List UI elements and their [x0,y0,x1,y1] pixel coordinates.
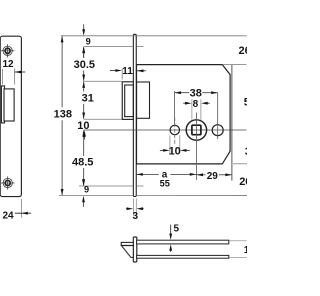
extension line latch top [84,80,122,82]
left circle centre line vertical [174,118,176,145]
svg-text:15.5: 15.5 [244,245,247,256]
dimension 3 extension lines [133,199,136,216]
svg-text:9: 9 [86,36,91,46]
svg-text:3: 3 [133,211,139,222]
dimension 10 circle diameter [170,135,180,153]
top view case top rail [137,240,229,244]
dimension 24 extension line [20,199,22,218]
top screw hole [1,44,15,58]
svg-text:24: 24 [2,210,14,221]
top extension line (plate top) [61,35,247,37]
faceplate side view strip [133,34,136,196]
chain dimension 9 top [83,24,85,30]
svg-text:5: 5 [174,224,180,235]
right circle centre line vertical [217,93,219,140]
svg-text:29: 29 [207,171,219,182]
cylinder hole left circle [170,125,179,134]
svg-text:9: 9 [84,185,89,195]
dimension 12 arrow [15,71,26,73]
dimension 138 line [61,36,63,195]
svg-text:26.5: 26.5 [239,45,248,57]
extension line case bottom right [233,163,247,165]
top view latch bolt bevel [121,246,133,258]
dimension 3 arrows [126,208,128,210]
svg-text:11: 11 [122,66,133,77]
svg-text:8: 8 [193,99,199,110]
svg-text:30.5: 30.5 [74,59,95,71]
chain dimension 9 bottom [83,179,85,181]
svg-text:10: 10 [169,145,181,157]
dimension 12 extension lines [2,69,14,85]
top view right extension lines [230,241,247,258]
follower centre line horizontal [84,129,247,131]
extension line latch bottom [84,118,122,120]
top view latch bolt bar [121,242,133,245]
screw hole right circle [212,125,223,136]
svg-text:12: 12 [2,59,14,70]
bottom screw hole [1,176,15,189]
dimension a backset [136,173,196,175]
svg-text:52.5: 52.5 [244,97,247,109]
extension line case top right [222,64,246,66]
svg-text:48.5: 48.5 [72,157,93,169]
latch bolt front view outer lip [1,86,4,123]
svg-text:55: 55 [160,179,170,189]
follower centre line vertical [195,113,197,181]
top view faceplate bar [133,237,137,262]
right edge extension vertical [231,65,233,181]
lock case side view body [137,65,231,164]
dimension label 55 [159,179,172,188]
chain dimension 31 [83,82,85,119]
dimension 38 [174,91,176,125]
latch bolt front view body [4,89,14,121]
svg-text:35: 35 [245,146,247,158]
chain dimension 30.5 [83,47,85,81]
latch bolt side view [122,82,133,120]
top view case bottom rail [137,255,229,258]
extension line screw level [84,45,144,47]
svg-text:26.5: 26.5 [239,176,247,188]
svg-text:38: 38 [190,88,202,100]
latch bolt tail in case [137,82,150,118]
extension line plate bottom [59,194,247,196]
dimension 11 [121,68,123,79]
dimension 8 [192,99,201,119]
faceplate front view plate [0,36,21,196]
svg-text:138: 138 [54,109,72,121]
dimension 29 [197,174,232,176]
svg-text:31: 31 [82,92,94,104]
dimension 24 arrow [15,212,31,214]
dimension 5 arrows [170,225,172,234]
chain dimension 48.5 [83,130,85,185]
follower square spindle hub [186,120,206,140]
extension line case lower [79,185,144,187]
